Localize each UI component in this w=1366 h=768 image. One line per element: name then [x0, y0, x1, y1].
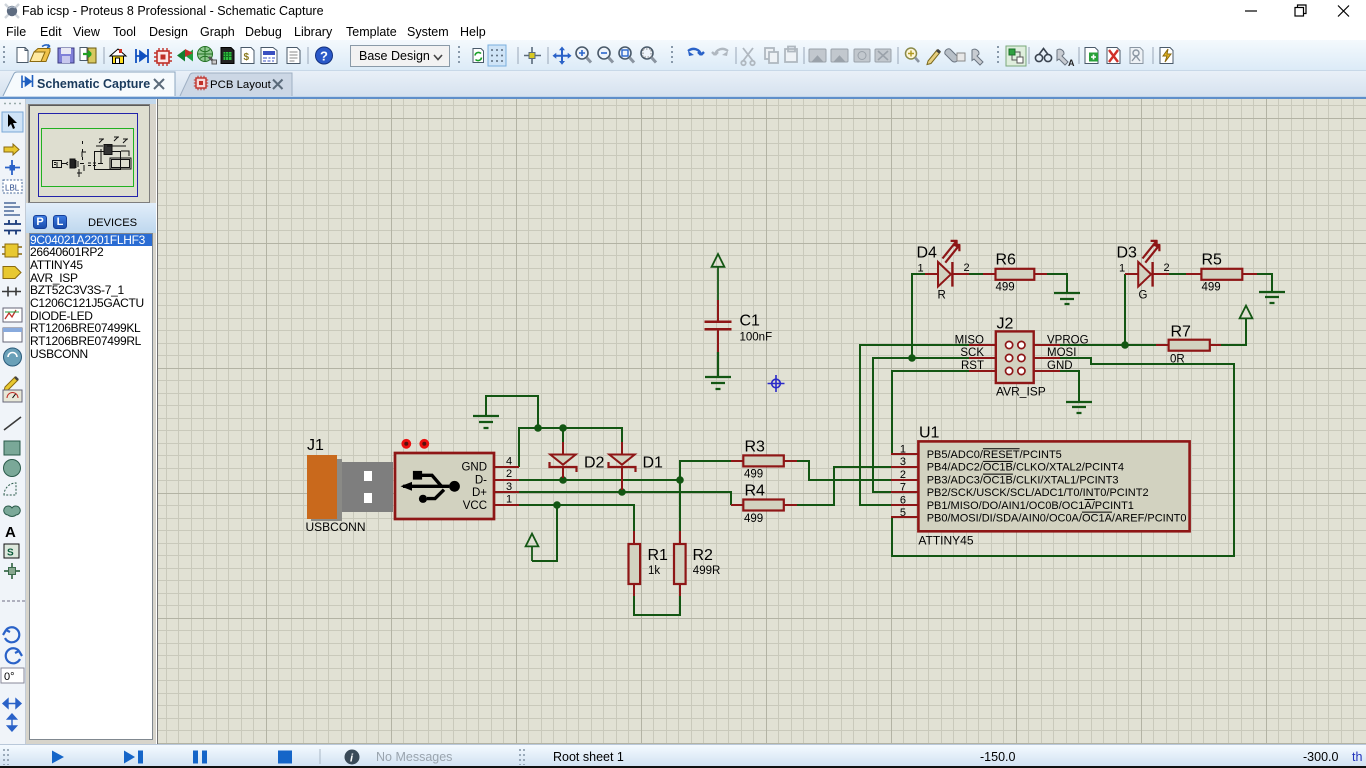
- J2 pin name SCK: [960, 347, 984, 359]
- wire MISO net J2 to U1 pin6: [860, 345, 969, 505]
- label U1: [919, 424, 940, 441]
- J1 pin number 3: [506, 481, 512, 493]
- U1 pin number 1: [900, 444, 906, 456]
- label D4: [917, 245, 938, 262]
- label R1: [648, 547, 669, 564]
- svg-text:Root sheet 1: Root sheet 1: [553, 750, 624, 764]
- junction VPROG / D3 branch: [1121, 341, 1129, 349]
- resistor R3: [731, 455, 797, 466]
- capacitor C1: [705, 300, 732, 352]
- wire VPROG net J2 to R7: [1060, 344, 1156, 346]
- wire MOSI net J2 to U1 pin5: [892, 358, 1234, 556]
- wire SCK net J2 to U1 pin7: [873, 358, 969, 492]
- U1 pin name PB2: [927, 487, 1149, 499]
- wire GND-loop from USB pin4 up to bus: [486, 396, 538, 428]
- zener diode D2: [550, 442, 577, 478]
- ground below J2 GND pin: [1066, 402, 1092, 413]
- connector J1 USBCONN graphic: [307, 453, 494, 521]
- J1 pad 1: [401, 439, 411, 449]
- J2 pin name MISO: [955, 334, 984, 346]
- J2 pin name GND: [1047, 360, 1073, 372]
- J2 pin name MOSI: [1047, 347, 1076, 359]
- ground below C1: [705, 352, 731, 389]
- P L DEVICES header: [26, 203, 156, 233]
- svg-text:th: th: [1352, 750, 1362, 764]
- label C1: [740, 313, 761, 330]
- U1 pin number 5: [900, 507, 906, 519]
- svg-text:-150.0: -150.0: [980, 750, 1015, 764]
- value 499 (R5): [1202, 282, 1221, 294]
- value 499 (R6): [996, 282, 1015, 294]
- resistor R6: [983, 269, 1047, 280]
- ground right of R6: [1054, 293, 1080, 304]
- D4 colour R: [938, 289, 946, 301]
- U1 pin name PB5: [927, 449, 1062, 461]
- value 100nF: [740, 332, 773, 344]
- LED D3: [1125, 240, 1169, 286]
- label R6: [996, 251, 1017, 268]
- USB trident icon: [401, 471, 460, 503]
- wire D3 cathode branch to VPROG: [1124, 274, 1126, 345]
- U1 pin number 3: [900, 456, 906, 468]
- power flag above C1: [712, 254, 725, 300]
- junction D- / R3 / R2: [676, 476, 684, 484]
- D4 pin 1: [918, 263, 924, 275]
- resistor R5: [1186, 269, 1257, 280]
- J1 pin number 4: [506, 456, 512, 468]
- svg-text:LBL: LBL: [5, 184, 20, 193]
- label R5: [1202, 251, 1223, 268]
- wire D+ net USB to R4: [519, 492, 731, 505]
- svg-text:$: $: [244, 52, 250, 63]
- J2 pin name RST: [961, 360, 984, 372]
- wire R7 to power flag: [1221, 318, 1246, 345]
- svg-text:PCB Layout: PCB Layout: [210, 79, 272, 91]
- J1 pin stub 4: [494, 466, 519, 468]
- value 0R: [1170, 353, 1185, 365]
- wire GND net J2 to ground: [1060, 371, 1079, 402]
- J1 pin stub 2: [494, 479, 519, 481]
- ground right of R5: [1259, 292, 1285, 303]
- wire R2 top to D- junction: [679, 480, 681, 531]
- connector J2 AVR_ISP: [996, 331, 1034, 383]
- LED D4: [925, 240, 969, 286]
- J1 pin name D+: [472, 487, 487, 499]
- junction SCK / D4 branch: [908, 354, 916, 362]
- U1 pin name PB3: [927, 474, 1119, 486]
- junction at GND bus x537.7: [534, 424, 542, 432]
- J1 pin name D-: [475, 474, 487, 486]
- resistor R7: [1156, 340, 1221, 351]
- origin marker (blue crosshair): [768, 375, 785, 392]
- junction VCC / flag branch: [553, 501, 561, 509]
- junction at D2 anode: [559, 424, 567, 432]
- label R2: [693, 547, 714, 564]
- J1 pin number 2: [506, 468, 512, 480]
- label D3: [1117, 245, 1138, 262]
- D3 colour G: [1139, 289, 1148, 301]
- ground near USB pin4 loop: [473, 416, 499, 428]
- label D1: [643, 455, 664, 472]
- wire R3 to U1 pin2: [797, 461, 891, 480]
- J2 pin name VPROG: [1047, 334, 1089, 346]
- wire RST net J2 to U1 pin1: [892, 371, 969, 454]
- D4 pin 2: [964, 262, 970, 274]
- overview minimap: [26, 99, 156, 104]
- svg-text:-300.0: -300.0: [1303, 750, 1338, 764]
- label D2: [584, 455, 605, 472]
- J1 pin stub 1: [494, 504, 519, 506]
- label USBCONN: [306, 520, 366, 534]
- wire D- junction up to R3: [680, 461, 731, 480]
- label ATTINY45: [918, 534, 973, 548]
- wire D- net USB to junction: [519, 479, 680, 481]
- resistor R2: [674, 531, 686, 596]
- U1 pin name PB4: [927, 461, 1124, 473]
- label R3: [745, 438, 766, 455]
- wire R4 to U1 pin3: [797, 467, 891, 505]
- U1 pin number 2: [900, 469, 906, 481]
- value 499R: [693, 565, 721, 577]
- resistor R4: [731, 500, 797, 511]
- value 499 (R4): [744, 513, 763, 525]
- label J2: [997, 316, 1014, 333]
- wire D3 to R5: [1169, 273, 1186, 275]
- U1 pin number 7: [900, 482, 906, 494]
- svg-text:Schematic Capture: Schematic Capture: [37, 77, 150, 91]
- U1 pin name PB0: [927, 512, 1187, 524]
- junction D1 cathode / D+: [618, 488, 626, 496]
- wire D4 cathode branch to SCK: [912, 274, 925, 358]
- resistor R1: [629, 531, 641, 596]
- power flag above R7: [1240, 306, 1253, 319]
- svg-text:A: A: [1068, 58, 1075, 68]
- J2 pin stubs: [969, 345, 1060, 371]
- value 499 (R3): [744, 468, 763, 480]
- wire D4 to R6: [969, 273, 983, 275]
- U1 pin number 6: [900, 494, 906, 506]
- U1 pin stubs: [891, 454, 919, 517]
- svg-text:S: S: [7, 548, 14, 559]
- J1 pin number 1: [506, 494, 512, 506]
- device list: [29, 233, 153, 740]
- U1 pin name PB1: [927, 500, 1134, 512]
- J1 pin name GND: [461, 462, 487, 474]
- value 1k: [648, 565, 660, 577]
- wire R6 to ground: [1047, 274, 1067, 293]
- svg-text:0°: 0°: [4, 671, 15, 683]
- junction at D2 cathode / D-: [559, 476, 567, 484]
- power flag on VCC net: [526, 534, 539, 561]
- wire VCC branch to power flag: [532, 505, 557, 561]
- label J1: [307, 437, 324, 454]
- D3 pin 1: [1119, 263, 1125, 275]
- J1 pin name VCC: [463, 500, 487, 512]
- svg-text:A: A: [5, 524, 16, 541]
- label R4: [745, 483, 766, 500]
- IC U1 ATTINY45: [918, 441, 1189, 531]
- svg-text:?: ?: [320, 49, 328, 64]
- wire R5 to ground: [1257, 274, 1272, 292]
- J1 pad 2: [419, 439, 429, 449]
- D3 pin 2: [1164, 262, 1170, 274]
- wire R1 bottom to R2 bottom: [634, 596, 680, 615]
- label AVR_ISP: [996, 385, 1046, 399]
- wire GND bus to D2/D1 anodes: [519, 428, 622, 467]
- J1 pin stub 3: [494, 491, 519, 493]
- zener diode D1: [609, 442, 636, 490]
- svg-text:No Messages: No Messages: [376, 750, 452, 764]
- label R7: [1171, 323, 1192, 340]
- wire VCC net USB to R1: [519, 505, 634, 531]
